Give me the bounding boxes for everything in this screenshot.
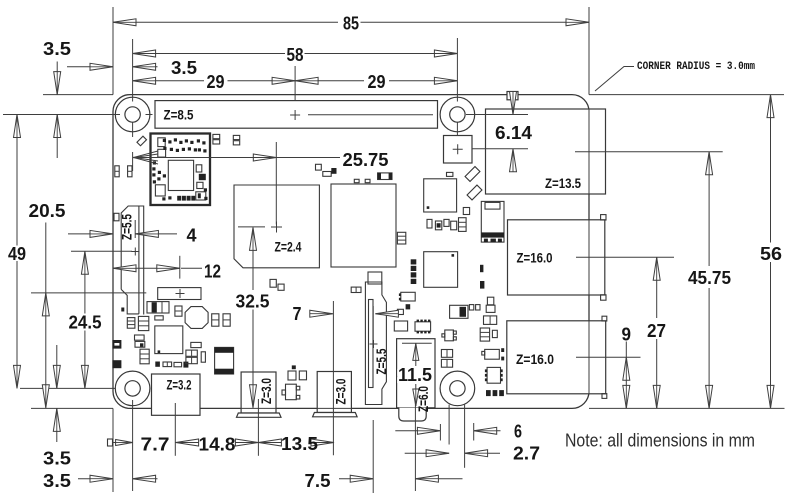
wire: 24.5 reference line (DSI center): [71, 250, 132, 252]
dark square below PHY: [406, 304, 411, 309]
wire: CSI centerline lower: [372, 420, 374, 493]
dim 6.14: [510, 92, 517, 172]
svg-text:32.5: 32.5: [236, 291, 270, 312]
SOIC IC left of USB2: [485, 367, 503, 383]
svg-text:3.5: 3.5: [43, 470, 71, 491]
board edge redraw through connectors: [241, 109, 589, 408]
wire: board left edge extension top: [112, 7, 114, 95]
dim 4 (DSI width): [68, 230, 177, 237]
svg-text:Z=3.2: Z=3.2: [167, 378, 192, 393]
mounting hole TR: [440, 97, 475, 132]
micro HDMI0 connector (Z=3.0): [237, 372, 282, 417]
svg-text:49: 49: [8, 243, 26, 264]
PoE header tab on top edge: [507, 92, 518, 100]
wire: audio jack centerline: [414, 395, 416, 492]
GPIO header J8 (Z=8.5): [155, 101, 438, 129]
wire: 6-dim left extension: [439, 424, 441, 441]
svg-text:27: 27: [647, 320, 666, 341]
dim 85 top: [113, 19, 589, 26]
wire: board bottom edge extension left: [31, 407, 113, 409]
mounting hole BR: [440, 371, 475, 406]
capacitor at left edge mid: [114, 213, 119, 221]
svg-text:6.14: 6.14: [495, 122, 533, 143]
wire: board right edge extension top: [588, 7, 590, 95]
USB controller VL805 U3: [424, 179, 457, 212]
svg-text:3.5: 3.5: [171, 57, 197, 78]
dim 2.7 (hole dia): [405, 450, 500, 457]
capacitor above VL805: [447, 172, 453, 176]
wire: USB2 center reference (9): [576, 356, 641, 358]
dim 11.5: [413, 343, 419, 406]
wire: 12-dim tick: [179, 256, 181, 279]
wire: SoC centerline tick (25.75): [275, 142, 277, 225]
dim 32.5: [250, 227, 257, 407]
wire: board top edge extension right: [589, 94, 784, 96]
svg-text:45.75: 45.75: [688, 267, 731, 288]
dim 7.5 (CSI to audio): [339, 475, 463, 482]
mounting hole BL: [115, 371, 150, 406]
connector between ethernet and USB3: [481, 201, 504, 242]
parts below SoC: [270, 279, 276, 287]
svg-text:3.5: 3.5: [43, 448, 71, 469]
svg-text:3.5: 3.5: [43, 38, 71, 59]
wire: 20.5 reference line y=293: [31, 292, 146, 294]
svg-text:24.5: 24.5: [69, 312, 102, 333]
svg-text:Z=5.5: Z=5.5: [374, 348, 389, 374]
capacitor right of RAM: [397, 232, 405, 244]
svg-text:7: 7: [293, 303, 302, 324]
svg-text:58: 58: [287, 44, 304, 65]
audio jack (Z=6.0): [397, 339, 435, 421]
dim 27: [653, 257, 660, 408]
capacitors right of wireless module: [213, 134, 220, 138]
wire: ethernet center reference (45.75): [575, 151, 723, 153]
wire: 2.7-dim left extension (hole edge): [448, 405, 450, 445]
svg-text:Z=3.0: Z=3.0: [334, 379, 349, 405]
IC below PHY: [399, 292, 415, 301]
dim 58: [133, 50, 458, 57]
svg-text:13.5: 13.5: [281, 433, 318, 454]
svg-text:29: 29: [368, 71, 386, 92]
fuse F1: [378, 173, 392, 180]
svg-text:7.5: 7.5: [305, 470, 331, 491]
svg-text:9: 9: [622, 324, 632, 345]
wire: PoE centerline vertical: [456, 129, 458, 136]
PoE header (2x2): [444, 136, 473, 164]
svg-text:56: 56: [760, 243, 782, 264]
PMIC U5: [155, 326, 183, 354]
capacitors right of PMIC: [186, 350, 206, 364]
SoC U1 (Z=2.4): [234, 185, 319, 268]
svg-text:29: 29: [207, 71, 225, 92]
svg-text:Z=2.4: Z=2.4: [275, 240, 302, 255]
capacitor below DSI: [127, 318, 135, 329]
mounting hole TL: [115, 97, 150, 132]
svg-text:Z=3.0: Z=3.0: [259, 378, 274, 404]
svg-text:Z=13.5: Z=13.5: [545, 176, 581, 191]
USB2 stack (Z=16.0): [507, 316, 607, 398]
dim 3.5 top-left vertical: [54, 62, 61, 159]
svg-text:2.7: 2.7: [513, 443, 540, 464]
passives row below VL805: [427, 208, 470, 232]
wire: USB3 center reference (27): [576, 256, 674, 258]
wire: GPIO center extension: [294, 66, 296, 100]
diagonal resistors near PoE: [465, 167, 480, 182]
svg-text:Z=5.5: Z=5.5: [120, 214, 135, 240]
small rect left of audio amp: [394, 321, 407, 331]
svg-text:Z=16.0: Z=16.0: [516, 352, 554, 367]
wire: 32.5 reference bar at SoC center: [238, 226, 265, 228]
svg-text:6: 6: [514, 421, 522, 442]
svg-text:Z=6.0: Z=6.0: [416, 386, 431, 412]
svg-text:20.5: 20.5: [29, 200, 66, 221]
dim 12: [113, 265, 202, 272]
diamond resistor left of module: [137, 136, 147, 146]
resistor above PMIC right: [191, 342, 201, 347]
dim 24.5: [81, 251, 88, 388]
CSI camera connector (Z=5.5): [365, 272, 386, 405]
svg-text:Note: all dimensions in mm: Note: all dimensions in mm: [565, 430, 755, 451]
small parts left of USB3: [480, 265, 495, 313]
FPC latch rect with center mark: [158, 288, 201, 300]
DSI display connector (Z=5.5): [121, 206, 144, 315]
wire: top-left hole centerline horizontal: [3, 114, 120, 116]
wire: 2.7-dim right extension (hole edge): [464, 405, 466, 468]
wire: board bottom edge extension right: [589, 407, 785, 409]
electrolytic capacitor (cylinder): [215, 347, 234, 374]
wire: hole centerline right segment (6.14 ref): [466, 114, 528, 116]
pad row below SOIC: [486, 390, 504, 396]
svg-text:4: 4: [187, 225, 198, 246]
svg-text:11.5: 11.5: [398, 364, 432, 385]
LED D2 on left edge: [112, 360, 121, 368]
wire: corner radius leader: [595, 67, 634, 92]
power inductor L1 (octagon): [185, 307, 208, 329]
wireless module: [151, 134, 211, 206]
micro HDMI1 connector (Z=3.0): [313, 372, 358, 417]
USB3 stack (Z=16.0): [508, 215, 607, 301]
wireless module interior pads: [152, 138, 207, 200]
svg-text:14.8: 14.8: [199, 434, 236, 455]
wire: right hole vertical extension: [456, 38, 458, 102]
capacitor left of USB2: [484, 316, 497, 325]
wire: board top edge extension left: [43, 94, 113, 96]
dim 49: [14, 115, 21, 389]
wire: 6-dim right extension: [473, 423, 475, 441]
wire: HDMI0 centerline: [257, 399, 259, 456]
dim 45.75: [706, 152, 713, 409]
capacitors right of inductor: [212, 314, 231, 326]
svg-text:7.7: 7.7: [141, 434, 170, 455]
dim 3.5 bottom horizontal: [78, 475, 158, 482]
capacitor pair at left edge: [115, 166, 132, 177]
dim 25.75: [133, 151, 340, 164]
wire: left hole vertical extension bottom: [132, 400, 134, 491]
SOT transistor Q1 near audio: [442, 330, 456, 341]
dim 9: [623, 342, 630, 409]
via column left of PHY: [411, 259, 417, 284]
wire: CSI centerline upper: [372, 306, 374, 343]
board outline: [113, 95, 589, 409]
crystal 3-bar left of USB2: [480, 328, 489, 341]
wire: board left edge extension bottom: [112, 408, 114, 492]
ethernet PHY U4: [424, 252, 458, 288]
resistor below RAM: [351, 287, 361, 292]
capacitors above PMIC: [135, 335, 145, 340]
passives row below PMIC: [155, 362, 188, 368]
IC with bar right of PHY: [450, 305, 480, 319]
resistor left of it: [397, 309, 403, 314]
svg-text:Z=8.5: Z=8.5: [164, 108, 194, 123]
dim 7.7 / 14.8 / 13.5 row: [108, 439, 335, 446]
LED D1 on left edge: [112, 340, 121, 349]
svg-text:Z=16.0: Z=16.0: [517, 251, 553, 266]
tantalum capacitor C1: [147, 302, 169, 313]
dim 3.5 bottom-left vertical: [53, 345, 60, 442]
parts between HDMI0 and HDMI1: [282, 365, 307, 399]
capacitor 3-bar left of PMIC: [140, 349, 149, 364]
dim 56: [767, 95, 774, 409]
wire: bottom-left hole centerline horizontal: [20, 387, 115, 389]
SOT transistor Q2 left of USB2: [482, 348, 504, 360]
via near DSI: [121, 308, 124, 312]
svg-text:25.75: 25.75: [343, 149, 389, 170]
dim 29 left: [133, 77, 296, 84]
wire: HDMI1 centerline: [332, 301, 334, 455]
wire: 4-dim tick at DSI right: [134, 220, 136, 238]
svg-text:85: 85: [343, 13, 359, 34]
dim 20.5: [42, 223, 49, 408]
ethernet jack (Z=13.5): [486, 109, 606, 194]
svg-text:CORNER RADIUS = 3.0mm: CORNER RADIUS = 3.0mm: [637, 61, 755, 73]
RAM U2: [331, 184, 396, 267]
capacitor 3-bar below DSI: [138, 316, 148, 330]
svg-text:12: 12: [204, 261, 221, 282]
audio amp IC with pins: [415, 320, 431, 334]
wire: PoE center reference line: [472, 148, 528, 150]
dim 6 (hole pad): [395, 427, 500, 434]
wire: USB-C centerline: [174, 403, 176, 456]
dim 7 (HDMI1 to CSI): [310, 310, 399, 317]
capacitors below Q1: [441, 350, 452, 368]
dim 3.5 top horizontal: [67, 63, 158, 70]
wire: left hole vertical extension top: [132, 39, 134, 102]
USB-C power connector (Z=3.2): [152, 374, 201, 415]
small resistor right of it: [155, 316, 163, 320]
passives between header and SoC: [233, 135, 370, 182]
capacitor vertical near inductor: [175, 306, 182, 316]
dim 29 right: [295, 77, 457, 84]
